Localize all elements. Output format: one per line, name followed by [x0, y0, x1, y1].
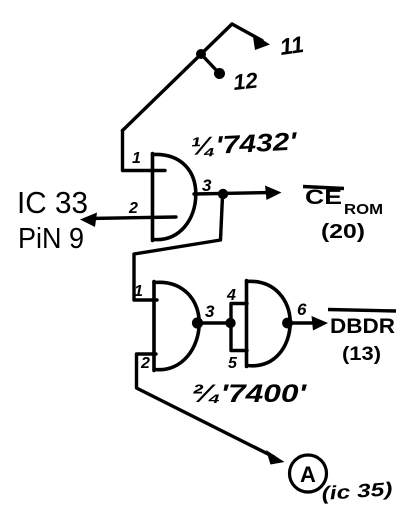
- wire: gate2 output to gate3 input junction: [200, 321, 230, 324]
- wire: gate3 output to DBDR arrow: [289, 321, 318, 324]
- svg-text:CE: CE: [305, 186, 342, 209]
- node: junction on pin3 wire: [218, 189, 228, 199]
- arrowhead: to node A: [266, 450, 285, 465]
- wire: gate3 tied inputs 4,5: [231, 304, 247, 351]
- node: junction on diagonal (to 12): [196, 49, 206, 59]
- svg-text:2: 2: [128, 200, 138, 217]
- svg-text:²⁄₄'7400': ²⁄₄'7400': [192, 380, 307, 408]
- wire: gate1 pin2 to IC33 arrow: [89, 217, 176, 219]
- wire: pin3 junction down-left to gate2 pin1: [134, 196, 223, 300]
- svg-text:1: 1: [134, 283, 143, 300]
- svg-text:ROM: ROM: [344, 201, 383, 218]
- svg-text:(13): (13): [342, 344, 381, 365]
- svg-text:¼'7432': ¼'7432': [190, 127, 299, 161]
- nand-gate U2 2/4 7400: [154, 282, 199, 371]
- svg-text:3: 3: [202, 176, 212, 195]
- arrowhead: DBDR (right): [312, 316, 329, 331]
- wire: junction to arrow 12 blob: [201, 54, 217, 71]
- svg-text:DBDR: DBDR: [330, 315, 395, 338]
- wire: peak to arrow 11: [232, 24, 262, 41]
- arrowhead: to IC33 pin9 (left): [80, 213, 97, 228]
- svg-text:IC 33: IC 33: [17, 185, 88, 220]
- label: DBDR (overline): [328, 310, 396, 312]
- svg-text:(20): (20): [321, 221, 365, 243]
- svg-text:6: 6: [297, 300, 307, 319]
- wire: gate1 output pin3 to CE arrow: [194, 193, 271, 195]
- svg-text:4: 4: [226, 287, 236, 304]
- svg-text:A: A: [300, 462, 316, 487]
- svg-text:PiN 9: PiN 9: [18, 223, 84, 255]
- wire: corner down to gate1 pin1: [123, 131, 166, 171]
- wire: diagonal up to peak: [123, 24, 233, 131]
- node: gate3 output junction: [282, 318, 293, 329]
- svg-text:2: 2: [140, 355, 150, 372]
- svg-text:3: 3: [205, 302, 215, 321]
- node: blob end of arrow 12: [214, 68, 225, 79]
- wire: gate2 pin2 stub and down to arrow A: [137, 354, 275, 457]
- svg-text:12: 12: [232, 67, 260, 95]
- node: gate3 input junction: [225, 318, 235, 328]
- nand-gate U3 2/4 7400: [247, 281, 291, 367]
- svg-text:1: 1: [132, 150, 141, 167]
- node A circle: [290, 455, 327, 492]
- arrowhead: CE rom (right): [265, 186, 282, 201]
- svg-text:5: 5: [228, 355, 238, 372]
- svg-text:11: 11: [278, 31, 305, 60]
- node: gate2 output junction: [192, 317, 203, 328]
- arrowhead: 11: [253, 34, 271, 51]
- or-gate U1 1/4 7432: [153, 154, 196, 241]
- label: CE (overline): [303, 187, 344, 189]
